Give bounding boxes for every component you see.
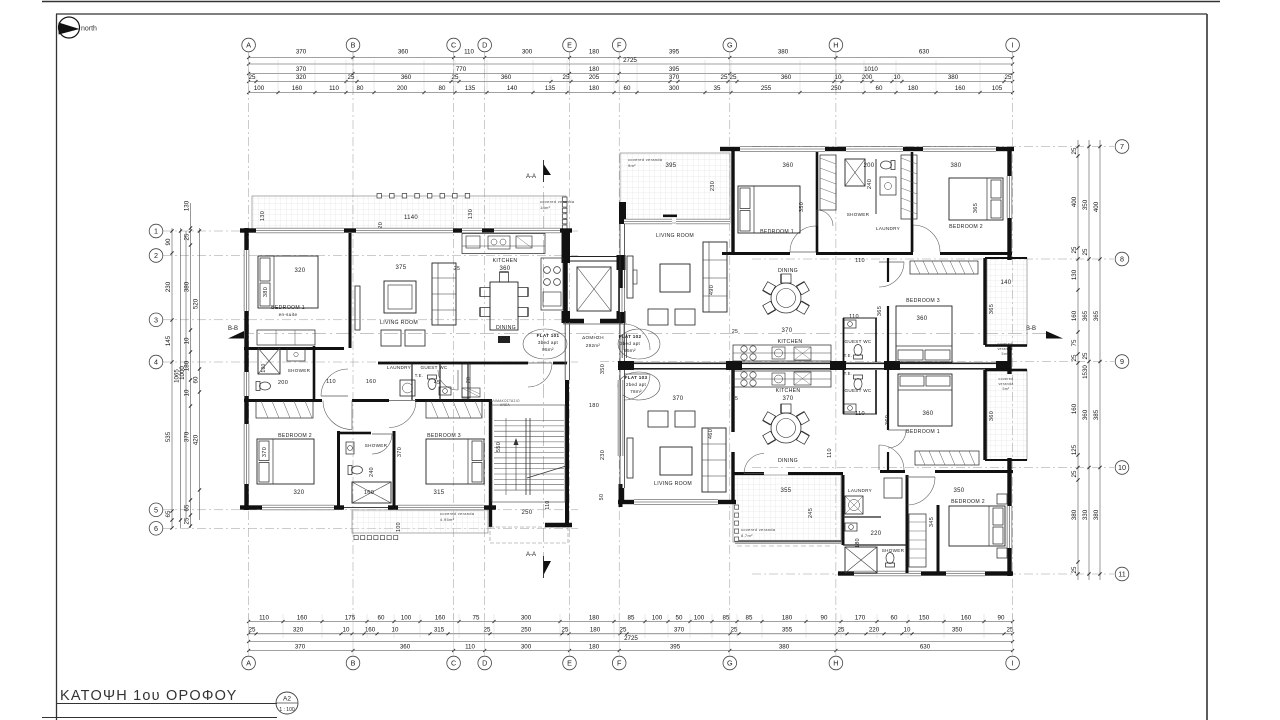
svg-text:3bed apt: 3bed apt: [538, 340, 559, 345]
title block lines: [57, 703, 278, 705]
svg-text:370: 370: [262, 447, 268, 457]
svg-text:6: 6: [154, 524, 158, 533]
flat103 living couch: [702, 428, 726, 492]
svg-text:10: 10: [184, 389, 191, 396]
svg-text:140: 140: [1001, 280, 1012, 286]
flat103 living chairs: [648, 411, 668, 427]
svg-text:50: 50: [599, 494, 605, 501]
flat101 top wall: [240, 228, 256, 232]
flat102 top windows: [740, 147, 825, 152]
bottom dimension row: bay widths: [249, 650, 1013, 652]
svg-text:B-B: B-B: [1026, 326, 1036, 332]
north arrow symbol: [59, 17, 80, 38]
svg-text:330: 330: [1082, 509, 1089, 520]
svg-text:160: 160: [1071, 310, 1078, 321]
svg-text:25: 25: [730, 74, 737, 81]
guestwc pocket door: [462, 388, 480, 397]
svg-text:85: 85: [746, 614, 753, 621]
flat102 bedroom row wall: [722, 252, 790, 255]
svg-text:FLAT 103: FLAT 103: [625, 375, 648, 380]
svg-text:130: 130: [260, 211, 266, 221]
svg-text:395: 395: [666, 163, 677, 169]
bed2/shower wall: [337, 431, 340, 508]
svg-text:90: 90: [821, 614, 828, 621]
door bed1 fl103: [879, 445, 904, 470]
svg-text:25: 25: [1007, 627, 1014, 634]
svg-text:60: 60: [378, 614, 385, 621]
right wing left wall: [619, 202, 626, 224]
svg-text:130: 130: [468, 209, 474, 219]
svg-text:100: 100: [396, 522, 402, 532]
svg-text:DINING: DINING: [778, 268, 798, 274]
svg-text:380: 380: [1071, 509, 1078, 520]
svg-text:380: 380: [263, 287, 269, 297]
kitchen counter flat101: [462, 234, 545, 254]
svg-text:25: 25: [838, 627, 845, 634]
left dimension column a: [171, 228, 173, 528]
svg-text:535: 535: [165, 431, 172, 442]
svg-text:110: 110: [259, 614, 269, 621]
svg-text:395: 395: [669, 66, 680, 73]
svg-text:9: 9: [1120, 357, 1124, 366]
flat101 left wall: [244, 228, 248, 250]
svg-text:320: 320: [293, 627, 304, 634]
sheet outer top edge: [42, 1, 1220, 3]
svg-text:BEDROOM 1: BEDROOM 1: [271, 305, 305, 311]
elevator shaft walls: [563, 263, 568, 311]
svg-text:LIVING ROOM: LIVING ROOM: [654, 481, 692, 487]
corridor bottom wall near F: [619, 484, 623, 507]
svg-text:355: 355: [781, 488, 792, 494]
svg-text:75: 75: [473, 614, 480, 621]
horizontal grid axis lines 7-11: [752, 146, 1114, 148]
shower2/bed3 wall: [393, 431, 396, 508]
svg-text:320: 320: [296, 74, 307, 81]
flat102 shower partition: [875, 159, 877, 214]
svg-text:FLAT 101: FLAT 101: [537, 333, 560, 338]
covered veranda flat103 right (5m2): [987, 370, 1027, 460]
staircase: [492, 405, 565, 502]
svg-text:GUEST WC: GUEST WC: [844, 339, 871, 344]
partitions small WCs: [411, 363, 413, 400]
svg-text:460: 460: [708, 429, 714, 439]
svg-text:GUEST WC: GUEST WC: [844, 388, 871, 393]
svg-text:60: 60: [876, 85, 883, 92]
svg-text:200: 200: [278, 380, 288, 386]
svg-text:130: 130: [184, 200, 191, 211]
svg-text:90: 90: [998, 614, 1005, 621]
svg-text:25: 25: [184, 233, 191, 240]
svg-text:180: 180: [589, 85, 600, 92]
scale circle A2 1:100: [276, 692, 298, 714]
svg-text:50: 50: [676, 614, 683, 621]
svg-text:GUEST WC: GUEST WC: [420, 365, 447, 370]
svg-text:T.E.: T.E.: [844, 353, 852, 358]
svg-text:365: 365: [1082, 310, 1089, 321]
svg-text:105: 105: [992, 85, 1003, 92]
svg-text:SHOWER: SHOWER: [847, 212, 870, 217]
svg-text:180: 180: [782, 614, 793, 621]
svg-text:LIVING ROOM: LIVING ROOM: [656, 233, 694, 239]
svg-text:175: 175: [345, 614, 356, 621]
svg-text:160: 160: [297, 614, 308, 621]
svg-text:370: 370: [674, 627, 685, 634]
grid bubbles top A-I: [242, 38, 256, 52]
flat102 bedroom1 right wall: [816, 152, 819, 252]
svg-text:380: 380: [951, 163, 962, 169]
svg-text:D: D: [482, 659, 487, 668]
svg-text:380: 380: [184, 281, 191, 292]
svg-text:300: 300: [521, 614, 532, 621]
flat102 kitchen counter: [733, 345, 831, 361]
svg-text:205: 205: [589, 74, 600, 81]
mirror wall columns: [618, 361, 634, 370]
svg-text:385: 385: [1093, 409, 1100, 420]
svg-text:360: 360: [398, 49, 409, 56]
svg-text:160: 160: [435, 614, 446, 621]
svg-text:10: 10: [392, 627, 399, 634]
svg-text:370: 370: [296, 66, 307, 73]
svg-text:292m²: 292m²: [586, 343, 601, 348]
svg-text:covered veranda: covered veranda: [540, 199, 575, 204]
svg-text:3bed apt: 3bed apt: [620, 341, 641, 346]
svg-text:230: 230: [600, 450, 606, 460]
svg-text:25: 25: [184, 517, 191, 524]
svg-text:380: 380: [779, 643, 790, 650]
svg-text:BEDROOM 3: BEDROOM 3: [906, 298, 940, 304]
svg-text:315: 315: [434, 627, 445, 634]
section line B-B: [240, 333, 1046, 335]
svg-text:360: 360: [400, 643, 411, 650]
dining label blob: [498, 336, 510, 343]
svg-text:220: 220: [871, 531, 882, 537]
svg-text:11: 11: [1118, 570, 1125, 579]
svg-text:370: 370: [673, 396, 684, 402]
flat102 shower room: [820, 155, 836, 210]
svg-text:25: 25: [1005, 74, 1012, 81]
svg-text:BEDROOM 1: BEDROOM 1: [906, 429, 940, 435]
svg-text:25: 25: [562, 627, 569, 634]
svg-text:covered veranda: covered veranda: [741, 527, 776, 532]
svg-text:25: 25: [721, 74, 728, 81]
svg-text:5: 5: [154, 505, 158, 514]
svg-text:E: E: [567, 659, 572, 668]
door bed3 fl102: [879, 262, 904, 287]
svg-text:360: 360: [501, 74, 512, 81]
svg-text:ΑΝΕΑ: ΑΝΕΑ: [500, 403, 510, 407]
covered veranda flat102 right (5m2): [987, 258, 1027, 346]
svg-text:25: 25: [1071, 470, 1078, 477]
svg-text:7: 7: [1120, 142, 1124, 151]
bed3/stairs wall: [489, 400, 492, 527]
svg-text:315: 315: [434, 490, 445, 496]
flat103 entry door: [624, 374, 650, 400]
ensuite shower flat101: [258, 348, 280, 374]
flat103 guestwc: [854, 375, 863, 390]
top dimension row: detailed dims: [249, 92, 1013, 94]
mirror wall between flats: [622, 363, 1008, 365]
svg-text:north: north: [81, 26, 97, 33]
svg-text:360: 360: [923, 411, 934, 417]
svg-text:490: 490: [709, 285, 715, 295]
flat102 bedroom2 left wall: [911, 152, 914, 252]
svg-text:135: 135: [545, 85, 556, 92]
svg-text:380: 380: [1093, 509, 1100, 520]
svg-text:BEDROOM 2: BEDROOM 2: [949, 224, 983, 230]
flat103 kitchen/guestwc walls: [843, 370, 845, 414]
svg-text:en-suite: en-suite: [279, 312, 298, 317]
svg-text:630: 630: [919, 49, 930, 56]
svg-text:180: 180: [589, 49, 600, 56]
svg-text:250: 250: [831, 85, 842, 92]
svg-text:360: 360: [1082, 409, 1089, 420]
bed3 closet flat101: [426, 401, 482, 418]
right wing bottom wall: [838, 571, 854, 575]
svg-text:10: 10: [904, 627, 911, 634]
svg-text:25: 25: [452, 74, 459, 81]
svg-text:550: 550: [496, 442, 502, 452]
flat101 entry door: [528, 363, 552, 387]
svg-text:25: 25: [1071, 354, 1078, 361]
svg-text:85: 85: [628, 614, 635, 621]
svg-text:1530: 1530: [1082, 365, 1089, 379]
top dimension row: overall 2725: [249, 63, 1013, 65]
right dimension column b: [1088, 140, 1090, 580]
door bed1 fl102: [790, 226, 816, 252]
svg-text:160: 160: [292, 85, 303, 92]
svg-text:250: 250: [522, 510, 533, 516]
svg-text:400: 400: [1071, 196, 1078, 207]
svg-text:H: H: [833, 41, 838, 50]
shower room door: [372, 434, 392, 454]
svg-text:LAUNDRY: LAUNDRY: [848, 488, 872, 493]
svg-text:110: 110: [465, 643, 475, 650]
svg-text:180: 180: [589, 643, 600, 650]
svg-text:25: 25: [249, 627, 256, 634]
svg-text:370: 370: [295, 643, 306, 650]
svg-text:300: 300: [521, 643, 532, 650]
svg-text:80: 80: [357, 85, 364, 92]
svg-text:100: 100: [694, 614, 705, 621]
svg-text:3: 3: [154, 315, 158, 324]
flat103 doors: [744, 454, 764, 474]
covered veranda flat102 top (9m2): [620, 153, 730, 223]
svg-text:350: 350: [954, 488, 965, 494]
svg-text:220: 220: [869, 627, 880, 634]
svg-text:360: 360: [783, 163, 794, 169]
svg-text:BEDROOM 2: BEDROOM 2: [951, 499, 985, 505]
living tv: [355, 286, 360, 330]
svg-text:380: 380: [948, 74, 959, 81]
svg-text:350: 350: [799, 202, 805, 212]
flat101 bottom wall: [240, 505, 262, 509]
svg-text:F: F: [617, 659, 622, 668]
flat callout ovals: [523, 329, 567, 359]
svg-text:C: C: [451, 41, 456, 50]
flat103 vertical wall G: [731, 370, 734, 432]
door bed2b: [323, 401, 352, 430]
svg-text:60: 60: [891, 614, 898, 621]
svg-text:BEDROOM 2: BEDROOM 2: [278, 433, 312, 439]
laundry fixtures: [400, 380, 415, 396]
svg-text:25: 25: [1082, 248, 1089, 255]
svg-text:25: 25: [454, 266, 460, 272]
stair bottom wall: [545, 523, 572, 528]
covered veranda flat101 bottom (4.95m2): [352, 510, 488, 533]
svg-text:160: 160: [366, 379, 376, 385]
corridor walls below elevator: [564, 322, 566, 380]
svg-text:365: 365: [989, 304, 995, 314]
svg-text:230: 230: [710, 181, 716, 191]
flat102 bed3: [896, 306, 952, 362]
balustrade squares top veranda: [377, 194, 382, 199]
right wing right wall: [1007, 147, 1011, 176]
bottom dimension row: overall 2725: [249, 641, 1013, 643]
left dimension column e: [199, 228, 201, 520]
dining table flat101: [490, 282, 518, 330]
flat103 living tv: [627, 438, 633, 478]
svg-text:130: 130: [1071, 269, 1078, 280]
svg-text:375: 375: [396, 265, 407, 271]
svg-text:BEDROOM 3: BEDROOM 3: [427, 433, 461, 439]
flat102 veranda window line: [624, 219, 672, 224]
svg-text:125: 125: [1071, 444, 1078, 455]
svg-text:100: 100: [652, 614, 663, 621]
svg-text:T.E.: T.E.: [415, 373, 423, 378]
grid bubbles left 1-6: [149, 224, 163, 238]
svg-text:110: 110: [545, 500, 551, 509]
flat103 shower partition: [843, 544, 907, 546]
flat102 living table: [660, 264, 690, 292]
svg-text:370: 370: [783, 396, 794, 402]
grid bubbles right 7-11: [1115, 140, 1129, 154]
flat102 shower inner door: [817, 210, 833, 226]
flat103 laundry: [845, 496, 863, 514]
stair break line: [527, 466, 566, 478]
flat101 bedroom1 bottom wall: [244, 347, 344, 350]
svg-text:240: 240: [867, 179, 873, 189]
svg-text:A: A: [246, 659, 251, 668]
svg-text:95m²: 95m²: [542, 347, 554, 352]
flat102 entry door: [624, 324, 650, 350]
svg-text:300: 300: [669, 85, 680, 92]
svg-text:25: 25: [1071, 566, 1078, 573]
svg-text:140: 140: [507, 85, 518, 92]
svg-text:DINING: DINING: [778, 458, 798, 464]
svg-text:300: 300: [522, 49, 533, 56]
svg-text:360: 360: [885, 415, 891, 425]
kitchen right counter + hob flat101: [541, 258, 563, 310]
svg-text:170: 170: [855, 614, 866, 621]
bedroom1/living wall: [349, 233, 352, 348]
svg-text:370: 370: [782, 328, 793, 334]
flat102 bed3 right wall / veranda: [983, 258, 986, 345]
svg-text:78m²: 78m²: [630, 389, 642, 394]
shower room top wall: [339, 432, 371, 435]
svg-text:365: 365: [877, 306, 883, 316]
svg-text:350: 350: [952, 627, 963, 634]
flat102 bed3 left wall: [887, 258, 889, 282]
svg-text:1: 1: [154, 227, 158, 236]
svg-text:60: 60: [193, 376, 200, 383]
svg-text:35: 35: [714, 85, 721, 92]
section line A-A: [543, 168, 545, 575]
svg-text:110: 110: [855, 258, 865, 264]
svg-text:H: H: [833, 659, 838, 668]
svg-text:ΔΟΜΗΣΗ: ΔΟΜΗΣΗ: [582, 335, 604, 340]
svg-text:100: 100: [254, 85, 265, 92]
svg-text:240: 240: [369, 467, 375, 477]
svg-text:360: 360: [917, 316, 928, 322]
svg-text:370: 370: [184, 431, 191, 442]
flat101 left wall windows: [244, 250, 249, 311]
svg-text:A2: A2: [283, 696, 291, 703]
svg-text:160: 160: [955, 85, 966, 92]
svg-text:I: I: [1012, 41, 1014, 50]
sheet inner frame: [56, 13, 1207, 15]
svg-text:10: 10: [343, 627, 350, 634]
svg-text:230: 230: [165, 281, 172, 292]
svg-text:SHOWER: SHOWER: [288, 368, 311, 373]
svg-text:395: 395: [670, 643, 681, 650]
svg-text:8,7m²: 8,7m²: [741, 533, 753, 538]
flat102 dining table: [771, 283, 801, 313]
bed3 flat101: [426, 439, 484, 484]
svg-text:80: 80: [439, 85, 446, 92]
svg-text:5m²: 5m²: [1002, 387, 1010, 391]
svg-text:4: 4: [154, 358, 158, 367]
flat101 lower rooms wall: [244, 399, 322, 402]
svg-text:B: B: [351, 41, 356, 50]
top dimension row: group dims: [249, 73, 1013, 75]
flat101 bottom windows: [262, 505, 334, 510]
flat102 living tv: [627, 256, 633, 298]
svg-text:25: 25: [1071, 246, 1078, 253]
covered veranda flat103 bottom (8.7m2): [733, 475, 841, 542]
left dimension column c: overall: [185, 231, 187, 520]
svg-text:BEDROOM 1: BEDROOM 1: [760, 229, 794, 235]
flat103 bed row wall: [880, 470, 905, 473]
svg-text:8: 8: [1120, 255, 1124, 264]
svg-text:25: 25: [348, 74, 355, 81]
svg-text:200: 200: [864, 163, 875, 169]
flat103 closet shower: [909, 514, 926, 567]
svg-text:395: 395: [669, 49, 680, 56]
living couch: [432, 263, 456, 325]
svg-text:10: 10: [184, 337, 191, 344]
svg-text:LIVING ROOM: LIVING ROOM: [380, 320, 418, 326]
flat103 bed1 bench: [915, 451, 979, 465]
svg-text:25: 25: [249, 74, 256, 81]
svg-text:60: 60: [624, 85, 631, 92]
covered veranda flat101 top (18m2): [252, 196, 566, 229]
horizontal grid axis lines 1-6: [163, 230, 578, 232]
svg-text:110: 110: [464, 49, 474, 56]
svg-text:10: 10: [1118, 463, 1126, 472]
svg-text:65: 65: [165, 510, 172, 517]
svg-text:160: 160: [961, 614, 972, 621]
svg-text:LAUNDRY: LAUNDRY: [387, 365, 411, 370]
svg-text:245: 245: [808, 508, 814, 518]
svg-text:G: G: [727, 659, 733, 668]
svg-text:180: 180: [261, 363, 267, 372]
svg-text:25: 25: [1071, 147, 1078, 154]
core walls upper corridor: [562, 231, 571, 263]
svg-text:25: 25: [732, 396, 738, 402]
svg-text:135: 135: [465, 85, 476, 92]
bottom dimension row: wall offsets: [249, 633, 1013, 635]
svg-text:G: G: [727, 41, 733, 50]
